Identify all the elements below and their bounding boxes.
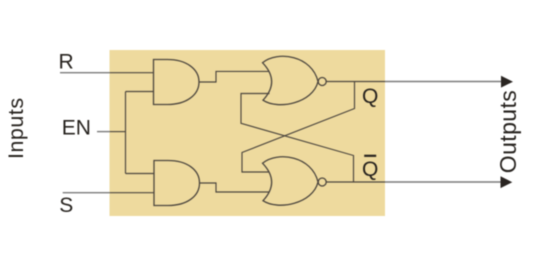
- arrowhead Q output: [501, 76, 513, 88]
- wire EN stub: [97, 131, 126, 133]
- svg-text:Q: Q: [362, 158, 378, 181]
- wire Q-bar feedback (from Q-bar node up-left to G3 lower input): [241, 94, 354, 183]
- wire Q-bar output: [326, 181, 501, 183]
- svg-text:Q: Q: [362, 85, 378, 108]
- wire EN branch vertical with taps to both AND gates: [126, 92, 154, 174]
- wire Q output: [326, 81, 501, 83]
- svg-text:Outputs: Outputs: [495, 90, 521, 173]
- wire G1 output step to NOR G3 upper input: [199, 71, 270, 82]
- latch enclosure box: [110, 50, 386, 216]
- arrowhead Q-bar output: [501, 176, 513, 188]
- svg-text:R: R: [59, 51, 74, 74]
- svg-text:Inputs: Inputs: [4, 97, 28, 159]
- svg-text:S: S: [59, 194, 73, 217]
- wire R input: [60, 72, 154, 74]
- AND gate G2 (bottom): [154, 161, 200, 206]
- wire G2 output step to NOR G4 lower input: [200, 183, 270, 192]
- svg-text:EN: EN: [62, 117, 91, 140]
- wire Q feedback (from Q node down-left to G4 upper input): [242, 82, 355, 173]
- NOR gate G4 (bottom): [263, 157, 327, 205]
- label Q-bar: [362, 155, 378, 181]
- AND gate G1 (top): [154, 60, 200, 105]
- NOR gate G3 (top): [263, 56, 327, 104]
- wire S input: [63, 192, 154, 194]
